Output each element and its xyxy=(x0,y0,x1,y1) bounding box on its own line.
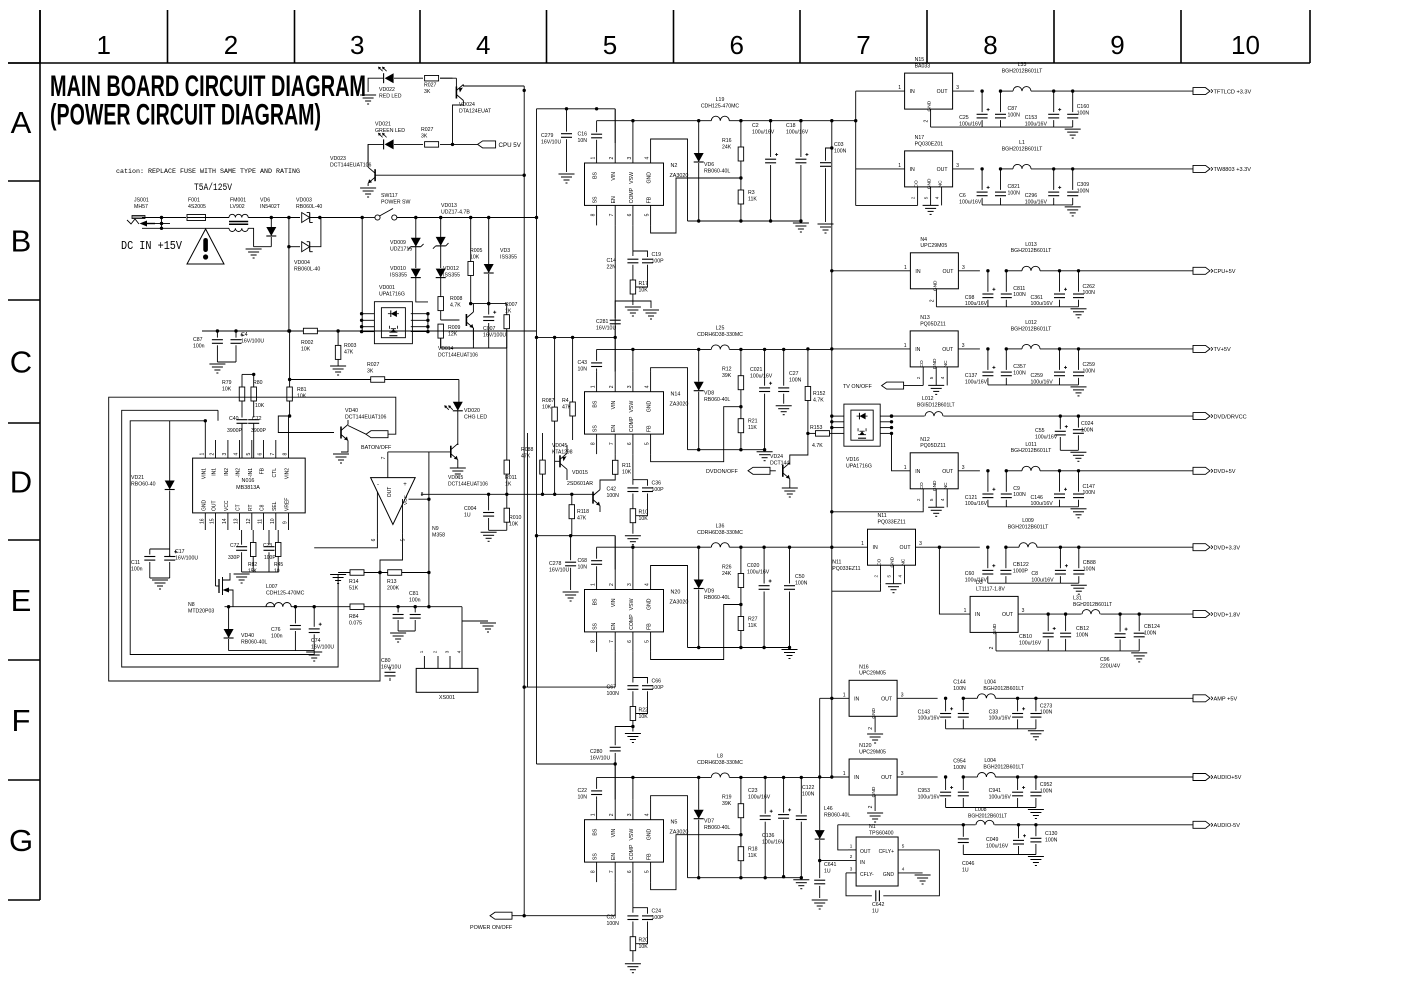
svg-text:100N: 100N xyxy=(1040,710,1053,716)
svg-text:-IN1: -IN1 xyxy=(248,468,254,478)
capacitor C121 100u/16V xyxy=(987,471,989,492)
wire R13 R14 bus xyxy=(338,572,429,574)
svg-text:LV902: LV902 xyxy=(230,204,245,210)
wire VD023 base rail xyxy=(375,174,524,176)
svg-text:100N: 100N xyxy=(1144,630,1157,636)
svg-text:CDH125-470MC: CDH125-470MC xyxy=(266,590,305,596)
svg-text:7: 7 xyxy=(609,640,615,643)
svg-text:IN: IN xyxy=(910,89,915,95)
ground VD040 xyxy=(333,453,349,455)
svg-text:C87: C87 xyxy=(193,337,203,343)
svg-text:1U: 1U xyxy=(872,908,879,914)
svg-text:VCC: VCC xyxy=(403,494,408,504)
svg-text:4: 4 xyxy=(898,574,903,577)
svg-text:CDRH6D38-330MC: CDRH6D38-330MC xyxy=(697,760,743,766)
ground VD015 xyxy=(450,467,466,469)
capacitor C122 100N xyxy=(800,776,803,779)
svg-text:7: 7 xyxy=(381,456,387,459)
svg-text:6: 6 xyxy=(730,30,744,60)
svg-text:VD020: VD020 xyxy=(464,408,480,414)
svg-text:R13: R13 xyxy=(387,579,397,585)
svg-text:R81: R81 xyxy=(297,387,307,393)
svg-text:BGH2012B601LT: BGH2012B601LT xyxy=(983,765,1024,771)
svg-text:DTA124EUAT: DTA124EUAT xyxy=(459,108,492,114)
svg-text:C953: C953 xyxy=(918,788,931,794)
wire FB loop N14 xyxy=(651,407,741,462)
svg-text:BGH2012B601LT: BGH2012B601LT xyxy=(1011,248,1052,254)
pin 2 GND N120 xyxy=(874,795,876,811)
svg-text:R005: R005 xyxy=(470,248,483,254)
svg-text:C121: C121 xyxy=(965,495,978,501)
wire DVD+1.8V rail xyxy=(1018,613,1193,615)
wire VIN riser N14 xyxy=(614,338,616,372)
svg-text:GND: GND xyxy=(932,280,938,291)
ground R003 xyxy=(330,365,346,367)
svg-text:9: 9 xyxy=(283,521,289,524)
svg-text:KTA1298: KTA1298 xyxy=(552,449,573,455)
svg-text:100N: 100N xyxy=(1040,788,1053,794)
svg-text:5: 5 xyxy=(603,30,617,60)
svg-text:100n: 100n xyxy=(193,343,205,349)
svg-text:3: 3 xyxy=(627,813,633,816)
svg-text:EN: EN xyxy=(611,622,617,629)
svg-text:RB060-40L: RB060-40L xyxy=(704,168,730,174)
svg-text:TV+5V: TV+5V xyxy=(1214,347,1232,353)
wire gnd bus N13 xyxy=(988,384,1079,386)
svg-text:D3: D3 xyxy=(976,580,983,586)
svg-text:12K: 12K xyxy=(448,331,458,337)
svg-text:(POWER CIRCUIT DIAGRAM): (POWER CIRCUIT DIAGRAM) xyxy=(50,99,321,132)
svg-text:L004: L004 xyxy=(984,758,996,764)
ground C74 xyxy=(306,651,322,653)
pin 6 N9 xyxy=(376,492,378,534)
ruler tick top 8 xyxy=(926,10,928,63)
svg-text:3: 3 xyxy=(956,163,959,169)
flag TV+5V xyxy=(1193,345,1210,352)
svg-text:C72: C72 xyxy=(252,416,262,422)
svg-text:GND: GND xyxy=(927,178,933,189)
svg-text:3900P: 3900P xyxy=(227,428,243,434)
ground N13 output xyxy=(1071,386,1087,388)
ground C024 xyxy=(1070,451,1086,453)
svg-text:10K: 10K xyxy=(639,944,649,950)
svg-text:4: 4 xyxy=(645,583,651,586)
svg-text:M358: M358 xyxy=(432,532,445,538)
wire EN s4 down xyxy=(614,882,616,916)
svg-text:OUT: OUT xyxy=(387,487,393,498)
svg-text:CB88: CB88 xyxy=(1083,560,1096,566)
svg-text:100N: 100N xyxy=(1013,292,1026,298)
ruler tick top 5 xyxy=(546,10,548,63)
svg-text:DCT144EUAT106: DCT144EUAT106 xyxy=(448,481,488,487)
svg-text:6: 6 xyxy=(627,213,633,216)
svg-text:100N: 100N xyxy=(1045,837,1058,843)
svg-text:ZA3020: ZA3020 xyxy=(670,402,689,408)
wire gnd bus N120 xyxy=(946,807,1036,809)
svg-text:OUT: OUT xyxy=(900,545,912,551)
svg-text:C6: C6 xyxy=(959,193,966,199)
svg-text:C2: C2 xyxy=(752,123,759,129)
wire base VD015 link xyxy=(388,451,451,453)
svg-text:100N: 100N xyxy=(1083,290,1096,296)
capacitor C98 100u/16V xyxy=(987,271,989,292)
svg-text:IN: IN xyxy=(915,347,920,353)
svg-text:GND: GND xyxy=(890,556,896,567)
svg-text:4.7K: 4.7K xyxy=(813,397,824,403)
svg-text:3: 3 xyxy=(919,541,922,547)
svg-text:MTD20P03: MTD20P03 xyxy=(188,608,214,614)
pin 2 GND LT1117 xyxy=(995,632,997,651)
svg-text:1: 1 xyxy=(591,157,597,160)
ground C279 xyxy=(559,173,575,175)
wire VIN feed section3 xyxy=(537,535,616,537)
svg-text:FB: FB xyxy=(647,623,653,630)
ground N4 output xyxy=(1071,308,1087,310)
wire CFLY+ loop xyxy=(883,850,939,896)
svg-text:COMP: COMP xyxy=(629,187,635,203)
svg-text:C23: C23 xyxy=(748,788,758,794)
svg-text:100u/16V: 100u/16V xyxy=(965,379,988,385)
wire FB loop N20 xyxy=(651,605,741,660)
wire gnd bus N17 xyxy=(982,204,1073,206)
svg-text:IN: IN xyxy=(975,612,980,618)
svg-text:DVD/DRVCC: DVD/DRVCC xyxy=(1214,414,1247,420)
wire POWER ON/OFF xyxy=(490,912,512,919)
wire N1 out to rail xyxy=(838,825,848,850)
capacitor C18 100u/16V xyxy=(799,119,802,122)
capacitor C2 100u/16V xyxy=(769,119,772,122)
svg-text:5: 5 xyxy=(645,442,651,445)
svg-text:1: 1 xyxy=(591,385,597,388)
ground VD023 xyxy=(360,187,376,189)
pin 1 VIN1 N016 xyxy=(204,440,206,458)
wire COMP network N20 xyxy=(632,652,634,683)
svg-text:SS: SS xyxy=(593,425,599,432)
svg-text:UPA1716G: UPA1716G xyxy=(379,291,405,297)
ground C281 xyxy=(643,309,659,311)
ground C03 xyxy=(818,223,834,225)
svg-text:C024: C024 xyxy=(1081,421,1094,427)
svg-text:5: 5 xyxy=(645,870,651,873)
wire gnd bus N14 xyxy=(688,449,765,451)
svg-text:RBO60-40: RBO60-40 xyxy=(131,481,156,487)
wire right of VD001 down xyxy=(427,314,429,332)
svg-text:BS: BS xyxy=(593,828,599,835)
IC N20 ZA3020 xyxy=(585,590,664,632)
svg-text:7: 7 xyxy=(609,442,615,445)
wire switch node down xyxy=(361,218,363,332)
wire rail switch to vrail xyxy=(535,216,538,219)
svg-text:1U: 1U xyxy=(824,868,831,874)
flag AMP +5V xyxy=(1193,695,1210,702)
svg-text:9: 9 xyxy=(1110,30,1124,60)
ground N120 xyxy=(867,812,883,814)
wire input top xyxy=(142,217,186,219)
ground C641 xyxy=(812,899,828,901)
svg-text:330P: 330P xyxy=(228,555,240,561)
regulator N17 PQ030EZ01 xyxy=(905,151,953,187)
wire drive bus xyxy=(421,493,595,495)
svg-text:C50: C50 xyxy=(795,574,805,580)
svg-text:VD004: VD004 xyxy=(294,260,310,266)
ruler tick top 4 xyxy=(419,10,421,63)
svg-text:DCT144EUAT106: DCT144EUAT106 xyxy=(330,162,372,168)
svg-text:R027: R027 xyxy=(421,127,434,133)
svg-text:2: 2 xyxy=(609,813,615,816)
svg-text:1: 1 xyxy=(964,608,967,614)
capacitor C357 100N xyxy=(1005,349,1007,370)
svg-text:100u/16V: 100u/16V xyxy=(1025,122,1048,128)
svg-text:PQ05DZ11: PQ05DZ11 xyxy=(920,321,946,327)
svg-text:IN1: IN1 xyxy=(212,468,218,476)
capacitor C259 100N xyxy=(1078,349,1080,370)
svg-text:CO: CO xyxy=(919,482,925,489)
ground audio-5 xyxy=(1028,856,1044,858)
svg-text:4: 4 xyxy=(457,650,462,653)
svg-text:10K: 10K xyxy=(301,346,311,352)
svg-text:3: 3 xyxy=(222,453,228,456)
wire EN chain s2 xyxy=(614,454,616,460)
svg-text:MH57: MH57 xyxy=(134,204,148,210)
wire VSW rail N5 xyxy=(597,776,712,778)
svg-text:6: 6 xyxy=(627,442,633,445)
svg-text:OUT: OUT xyxy=(860,849,871,855)
svg-text:16V/10U: 16V/10U xyxy=(541,139,561,145)
svg-text:24K: 24K xyxy=(722,571,732,577)
svg-text:100N: 100N xyxy=(953,765,966,771)
svg-text:C309: C309 xyxy=(1077,182,1090,188)
svg-text:100u/16V: 100u/16V xyxy=(965,301,988,307)
svg-text:CB12: CB12 xyxy=(1076,626,1089,632)
capacitor C146 100u/16V xyxy=(1059,471,1061,492)
svg-text:OUT: OUT xyxy=(1002,612,1014,618)
svg-text:C280: C280 xyxy=(590,749,603,755)
svg-text:C60: C60 xyxy=(965,571,975,577)
svg-text:VD001: VD001 xyxy=(379,285,395,291)
svg-text:100N: 100N xyxy=(1013,370,1026,376)
wire VD004 column down xyxy=(288,247,290,331)
svg-text:VD6: VD6 xyxy=(704,162,714,168)
ground C278 xyxy=(563,591,579,593)
svg-text:10N: 10N xyxy=(578,564,588,570)
IC N14 ZA3020 xyxy=(585,392,664,434)
capacitor C273 100N xyxy=(1035,698,1037,711)
svg-text:2: 2 xyxy=(916,376,921,379)
svg-text:N17: N17 xyxy=(915,135,925,141)
svg-text:VD015: VD015 xyxy=(448,475,464,481)
svg-text:100N: 100N xyxy=(834,148,847,154)
wire C67 bus xyxy=(524,686,615,688)
svg-text:C8: C8 xyxy=(1031,571,1038,577)
wire GND pin N5 xyxy=(651,796,688,878)
svg-text:15: 15 xyxy=(210,518,216,524)
svg-text:C122: C122 xyxy=(802,785,815,791)
svg-text:C259: C259 xyxy=(1083,362,1096,368)
wire VSW rail N14 xyxy=(597,348,712,350)
svg-text:C020: C020 xyxy=(747,563,760,569)
wire output rail N20 xyxy=(729,546,832,548)
svg-text:OUT: OUT xyxy=(942,347,954,353)
svg-text:BATON/OFF: BATON/OFF xyxy=(361,445,392,451)
svg-text:OUT: OUT xyxy=(937,89,949,95)
ground COMP N14 xyxy=(625,535,641,537)
svg-text:C259: C259 xyxy=(1031,373,1044,379)
svg-text:8: 8 xyxy=(421,492,424,498)
svg-text:PQ033EZ11: PQ033EZ11 xyxy=(832,566,860,572)
svg-text:L46: L46 xyxy=(824,806,833,812)
svg-text:16V/100U: 16V/100U xyxy=(483,332,506,338)
ground R14 left xyxy=(330,574,346,576)
capacitor C144 100N xyxy=(962,698,964,711)
wire N120 input xyxy=(832,776,849,778)
wire gnd bus N16 xyxy=(946,728,1036,730)
wire XS001 pin4 gnd xyxy=(461,607,463,656)
ruler tick top 11 xyxy=(1309,10,1311,63)
svg-text:C11: C11 xyxy=(131,560,140,566)
capacitor C361 100u/16V xyxy=(1059,271,1061,292)
svg-text:N5: N5 xyxy=(671,820,678,826)
svg-text:100u/16V: 100u/16V xyxy=(989,794,1012,800)
wire VIN feed section1 xyxy=(537,108,616,110)
svg-text:4.7K: 4.7K xyxy=(450,302,461,308)
capacitor C9 100N xyxy=(1005,471,1007,492)
svg-text:4: 4 xyxy=(645,157,651,160)
ground COMP N5 xyxy=(625,963,641,965)
ground XS001 xyxy=(480,622,496,624)
svg-text:C144: C144 xyxy=(953,680,966,686)
flag AUDIO-5V xyxy=(1193,821,1210,828)
pin 2 GND N16 xyxy=(874,716,876,732)
svg-text:VD022: VD022 xyxy=(379,87,395,93)
svg-text:N11: N11 xyxy=(832,560,841,566)
svg-text:100u/16V: 100u/16V xyxy=(959,122,982,128)
wire FB loop N2 xyxy=(651,178,741,233)
wire N11 input xyxy=(832,546,868,548)
svg-text:TW8803 +3.3V: TW8803 +3.3V xyxy=(1214,167,1252,173)
svg-text:VD21: VD21 xyxy=(131,475,144,481)
capacitor C8 100u/16V xyxy=(1059,547,1061,568)
svg-text:C14: C14 xyxy=(607,258,617,264)
wire loop inner xyxy=(130,421,314,655)
pin 14 VCC N016 xyxy=(227,513,229,530)
svg-text:2: 2 xyxy=(224,30,238,60)
svg-text:C811: C811 xyxy=(1013,286,1025,292)
svg-text:10K: 10K xyxy=(222,386,232,392)
svg-text:BGH2012B601LT: BGH2012B601LT xyxy=(983,686,1024,692)
svg-text:C046: C046 xyxy=(962,861,975,867)
wire pin5 to divider xyxy=(380,533,403,572)
svg-text:SS: SS xyxy=(593,853,599,860)
ground N15 output xyxy=(1065,128,1081,130)
svg-text:39K: 39K xyxy=(722,373,732,379)
wire cluster bottom xyxy=(441,347,507,349)
svg-text:GND: GND xyxy=(201,500,207,512)
svg-text:C18: C18 xyxy=(786,123,796,129)
svg-text:VD010: VD010 xyxy=(390,266,406,272)
svg-text:CDRH6D38-330MC: CDRH6D38-330MC xyxy=(697,332,743,338)
wire source to L007 xyxy=(225,606,275,608)
svg-text:3K: 3K xyxy=(367,368,374,374)
wire N11 CO loop xyxy=(832,584,881,592)
wire DVD/DRVCC rail xyxy=(892,415,1193,417)
svg-text:FB: FB xyxy=(647,853,653,860)
ruler tick left 3 xyxy=(8,422,40,424)
svg-text:4: 4 xyxy=(645,385,651,388)
svg-text:UPC29M05: UPC29M05 xyxy=(859,671,886,677)
svg-text:IN: IN xyxy=(854,696,859,702)
svg-text:R009: R009 xyxy=(448,325,461,331)
svg-text:SS: SS xyxy=(593,196,599,203)
svg-text:R20: R20 xyxy=(639,938,649,944)
svg-text:A: A xyxy=(11,105,32,140)
svg-text:EN: EN xyxy=(611,853,617,860)
svg-text:100u/16V: 100u/16V xyxy=(748,794,771,800)
svg-text:VD40: VD40 xyxy=(345,408,358,414)
svg-text:1000P: 1000P xyxy=(1013,569,1029,575)
svg-text:R16: R16 xyxy=(722,138,732,144)
ground N12 gnd pin xyxy=(928,506,944,508)
wire VIN feed section4 xyxy=(537,763,616,765)
svg-text:100u/16V: 100u/16V xyxy=(752,129,775,135)
svg-text:10K: 10K xyxy=(542,404,552,410)
svg-text:RB060-40L: RB060-40L xyxy=(704,825,730,831)
svg-text:3K: 3K xyxy=(424,89,431,95)
svg-text:100N: 100N xyxy=(795,580,808,586)
svg-text:IN: IN xyxy=(915,469,920,475)
svg-text:12: 12 xyxy=(246,518,252,524)
svg-text:5: 5 xyxy=(246,453,252,456)
svg-text:L012: L012 xyxy=(922,396,934,402)
svg-text:N9: N9 xyxy=(432,526,439,532)
svg-text:BA033: BA033 xyxy=(915,64,931,70)
capacitor C147 100N xyxy=(1078,471,1080,492)
ground C004 xyxy=(481,531,497,533)
svg-text:cation: REPLACE FUSE WITH SAME: cation: REPLACE FUSE WITH SAME TYPE AND … xyxy=(116,168,300,176)
svg-text:C821: C821 xyxy=(1008,184,1021,190)
svg-text:C87: C87 xyxy=(1008,106,1018,112)
flag TW8803 +3.3V xyxy=(1193,165,1210,172)
svg-text:C262: C262 xyxy=(1083,284,1096,290)
pin 9 VREF N016 xyxy=(288,513,290,530)
svg-text:VSW: VSW xyxy=(629,598,635,610)
svg-text:100N: 100N xyxy=(1083,490,1096,496)
svg-text:BS: BS xyxy=(593,400,599,407)
svg-text:VD6: VD6 xyxy=(260,198,270,204)
svg-text:N1: N1 xyxy=(869,824,876,830)
svg-text:8: 8 xyxy=(591,870,597,873)
wire gnd bus N2 xyxy=(688,220,801,222)
pin 5 N9 xyxy=(402,499,404,533)
svg-text:10K: 10K xyxy=(622,469,632,475)
svg-text:R10: R10 xyxy=(639,510,649,516)
svg-text:C279: C279 xyxy=(541,133,554,139)
svg-text:D: D xyxy=(10,465,32,500)
svg-text:C66: C66 xyxy=(652,679,662,685)
svg-text:5: 5 xyxy=(924,196,929,199)
flag DVD+1.8V xyxy=(1193,611,1210,618)
svg-text:GND: GND xyxy=(871,707,877,718)
svg-text:R22: R22 xyxy=(639,708,649,714)
svg-text:C24: C24 xyxy=(652,909,662,915)
svg-text:3: 3 xyxy=(962,343,965,349)
svg-text:N12: N12 xyxy=(920,437,930,443)
svg-text:100u/16V: 100u/16V xyxy=(1025,199,1048,205)
svg-text:NC: NC xyxy=(938,180,944,187)
ruler tick top 3 xyxy=(294,10,296,63)
svg-text:100n: 100n xyxy=(131,566,143,572)
ground N20 output xyxy=(782,649,798,651)
ground N16 xyxy=(867,733,883,735)
